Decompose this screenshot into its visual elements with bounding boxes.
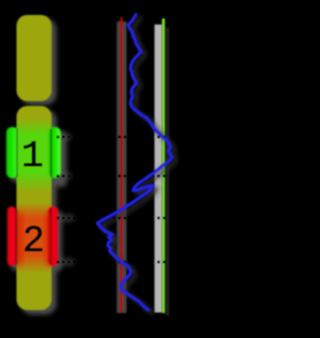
chromosome q-arm with band gradients [17,106,52,310]
chromosome p-arm [17,15,52,101]
band2 body red edge glow left [17,213,23,265]
band 1 left green bulge [6,127,18,178]
svg-text:2: 2 [22,221,44,263]
band 2 right red bulge [48,207,58,267]
plot: dark gray band around red threshold line [117,22,127,314]
plot: green threshold line [162,19,165,314]
plot: red threshold line [120,18,122,313]
green line drop shadow [166,28,169,316]
svg-text:1: 1 [21,136,43,178]
plot: light gray band left of green line [155,25,163,313]
band2 body red edge glow right [46,213,52,265]
band 2 left red bulge [7,207,16,267]
dotted connector line band1 bottom [57,175,167,178]
blue curve drop shadow [102,18,177,313]
dotted connector line band1 top [57,136,167,139]
seam between body and band2 bulges [16,209,52,265]
seam between body and band1 bulges [16,129,52,177]
dotted connector line band2 top [57,217,167,220]
dotted connector line band2 bottom [57,261,167,264]
blue ratio curve [98,15,173,310]
chromosome drop shadows [11,19,75,315]
band 1 right green bulge [49,127,61,178]
